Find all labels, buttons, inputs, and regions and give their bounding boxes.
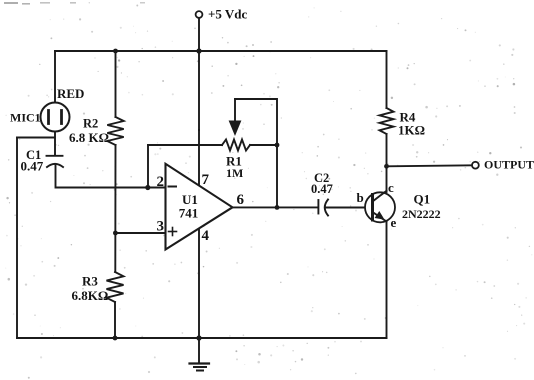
svg-text:RED: RED	[57, 86, 84, 101]
svg-text:OUTPUT: OUTPUT	[484, 158, 534, 172]
svg-text:6: 6	[237, 192, 245, 208]
svg-text:b: b	[357, 190, 364, 205]
svg-text:c: c	[388, 180, 394, 195]
svg-text:+5 Vdc: +5 Vdc	[208, 7, 248, 22]
svg-text:6.8 KΩ: 6.8 KΩ	[69, 130, 109, 145]
svg-text:7: 7	[202, 172, 210, 188]
svg-text:1M: 1M	[226, 166, 243, 180]
svg-text:2N2222: 2N2222	[402, 207, 441, 221]
svg-text:Q1: Q1	[414, 192, 431, 207]
svg-text:e: e	[391, 215, 397, 230]
svg-text:3: 3	[157, 219, 165, 235]
svg-text:0.47: 0.47	[21, 159, 44, 174]
svg-text:R2: R2	[83, 117, 98, 131]
svg-text:2: 2	[157, 174, 165, 190]
svg-text:6.8KΩ: 6.8KΩ	[72, 288, 109, 303]
svg-text:0.47: 0.47	[311, 182, 333, 196]
svg-text:741: 741	[179, 206, 199, 221]
svg-text:R3: R3	[82, 274, 98, 289]
svg-text:MIC1: MIC1	[10, 111, 41, 125]
svg-text:4: 4	[202, 228, 210, 244]
svg-text:1KΩ: 1KΩ	[398, 123, 425, 138]
